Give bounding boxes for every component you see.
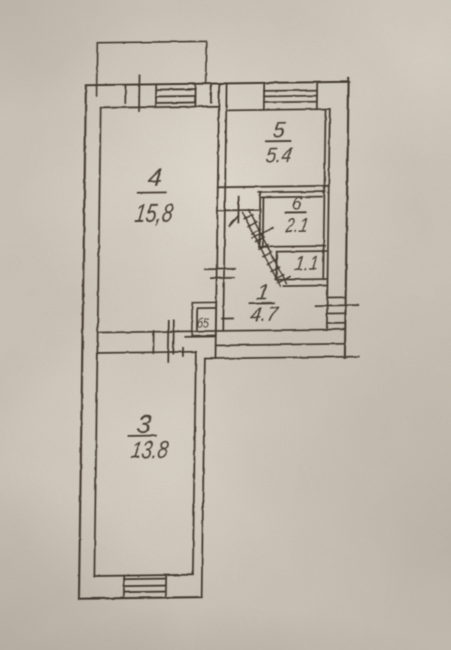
room5 bottom wall xyxy=(218,186,329,187)
stairs ladder xyxy=(242,209,291,287)
wall tick T3 xyxy=(210,84,212,102)
room3 window xyxy=(124,575,166,598)
room 3 label xyxy=(129,409,170,464)
room3 outer bottom wall xyxy=(79,597,202,599)
room 3 fraction bar xyxy=(128,435,156,437)
room 1 fraction bar xyxy=(250,302,274,304)
room 6 label xyxy=(284,193,310,237)
rooms right edge line xyxy=(323,109,325,279)
hallway bottom middle line xyxy=(216,344,345,346)
wall tick T2 xyxy=(138,75,140,111)
room 4 fraction bar xyxy=(138,191,166,193)
room 1.1 label xyxy=(293,253,320,275)
tick near b5 box xyxy=(222,317,233,319)
room6 walls xyxy=(258,192,326,247)
tick on wall above stairs xyxy=(237,197,239,223)
inner top wall left (room 4) xyxy=(101,106,219,108)
b5 label xyxy=(197,316,210,331)
inner left wall xyxy=(94,108,100,576)
wall tick T1 xyxy=(124,85,126,103)
outer right wall xyxy=(345,78,349,357)
wall room4-hall line1 xyxy=(215,83,219,358)
door ticks room4 to hallway xyxy=(205,268,235,270)
room3 outer right wall xyxy=(202,359,205,598)
door ticks to room3 xyxy=(153,320,183,362)
room3 inner walls xyxy=(94,352,196,576)
room 4 label xyxy=(133,164,176,228)
room4 and hallway bottom inner line xyxy=(98,329,344,332)
wall above stairs xyxy=(217,209,257,212)
room 1 label xyxy=(249,279,281,326)
room 5 fraction bar xyxy=(265,140,290,142)
right wall door hatch xyxy=(316,297,358,323)
outer top wall xyxy=(86,82,350,85)
window W2 room 5 xyxy=(264,82,317,110)
outer left wall xyxy=(79,85,86,599)
diagonal stroke near wall xyxy=(229,216,238,226)
balcony xyxy=(97,41,207,95)
wall room4-hall line2 xyxy=(223,83,226,331)
room 1.1 walls xyxy=(276,251,328,286)
room 6 fraction bar xyxy=(286,211,306,213)
corridor right wall line xyxy=(327,109,330,330)
window W1 room 4 xyxy=(156,84,195,107)
room 5 label xyxy=(264,117,293,167)
inner top wall right (room 5) xyxy=(226,109,330,110)
hallway bottom outer line xyxy=(205,357,359,359)
b5 box xyxy=(185,302,216,336)
